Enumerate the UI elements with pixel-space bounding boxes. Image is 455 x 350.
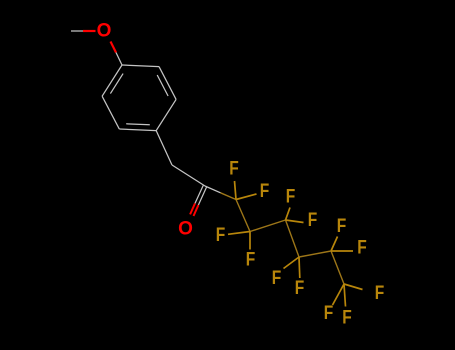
svg-text:F: F: [342, 308, 352, 329]
O-ring bond (C half): [116, 53, 122, 66]
O-ring bond (O half): [111, 42, 117, 53]
svg-text:F: F: [246, 250, 256, 271]
svg-text:O: O: [178, 219, 193, 240]
C=O double bond line a red half: [194, 205, 199, 216]
methyl CH3 bond (O half): [83, 30, 96, 32]
perfluoro chain C-C bonds: [236, 200, 344, 285]
svg-text:F: F: [295, 278, 305, 299]
C-F bonds: [228, 181, 363, 307]
aromatic inner line C2-C3: [157, 75, 168, 96]
svg-text:F: F: [308, 210, 318, 231]
F atoms: [216, 159, 385, 329]
svg-text:O: O: [97, 21, 112, 42]
methyl CH3 bond (C half): [71, 30, 83, 32]
benzylic CH2 bond: [156, 131, 172, 165]
svg-text:F: F: [216, 225, 226, 246]
C=O double bond line b red half: [190, 203, 195, 214]
C(O)-CF2 bond white half: [205, 186, 221, 193]
benzene ring: [102, 65, 176, 131]
C=O double bond line a white half: [198, 187, 206, 205]
C=O double bond line b white half: [195, 185, 203, 203]
svg-text:F: F: [375, 283, 385, 304]
svg-text:F: F: [357, 238, 367, 259]
CH2-C(O) bond: [172, 165, 205, 186]
svg-text:F: F: [324, 303, 334, 324]
aromatic inner line C4-C5: [126, 124, 150, 125]
svg-text:F: F: [286, 187, 296, 208]
svg-text:F: F: [337, 216, 347, 237]
svg-text:F: F: [229, 159, 239, 180]
svg-text:F: F: [260, 181, 270, 202]
C(O)-CF2 bond olive half: [221, 193, 237, 200]
svg-text:F: F: [272, 268, 282, 289]
aromatic inner line C6-C1: [110, 74, 123, 94]
